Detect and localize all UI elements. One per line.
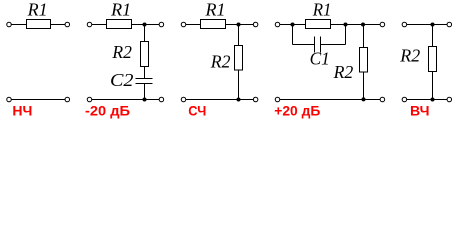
svg-text:C1: C1 <box>310 48 330 68</box>
svg-text:R2: R2 <box>210 51 231 71</box>
svg-text:ВЧ: ВЧ <box>410 103 430 119</box>
svg-text:СЧ: СЧ <box>188 103 206 119</box>
svg-text:-20 дБ: -20 дБ <box>85 103 130 119</box>
svg-text:C2: C2 <box>110 70 134 90</box>
svg-text:R1: R1 <box>204 0 225 20</box>
svg-text:НЧ: НЧ <box>12 103 32 119</box>
svg-text:R1: R1 <box>110 0 131 20</box>
svg-text:R2: R2 <box>333 62 354 82</box>
svg-text:R1: R1 <box>27 0 48 20</box>
svg-text:R2: R2 <box>399 46 420 66</box>
svg-text:R2: R2 <box>111 42 132 62</box>
svg-text:R1: R1 <box>312 0 332 20</box>
svg-text:+20 дБ: +20 дБ <box>274 103 320 119</box>
